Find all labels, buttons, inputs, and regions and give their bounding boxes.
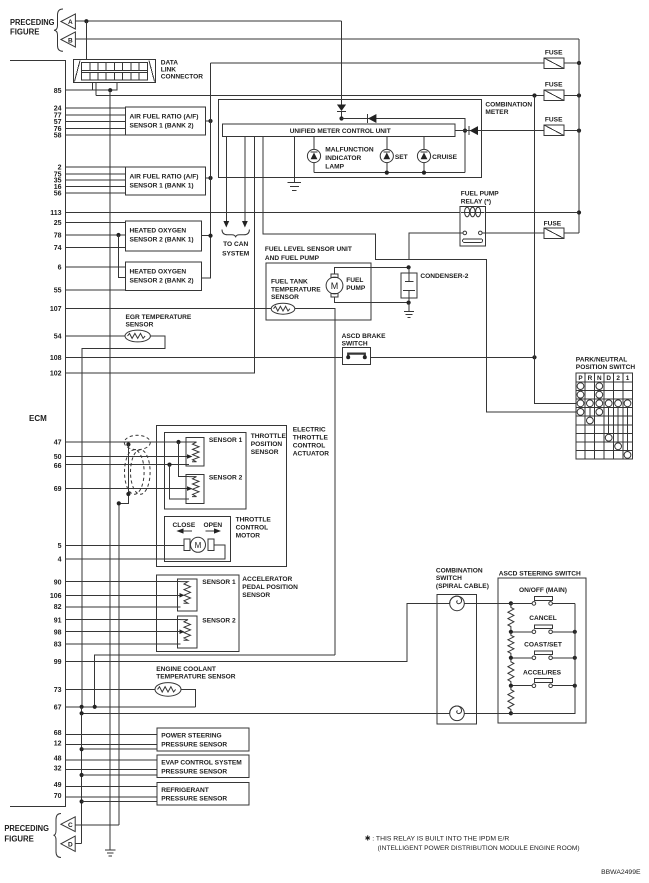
EGR temperature sensor: [125, 330, 150, 342]
wire: AF bank1 right to bus: [205, 177, 210, 179]
wire: DLC pin down to fuse feed line: [95, 82, 97, 95]
combination switch spiral cable box: [437, 595, 477, 724]
air fuel ratio sensor 1 bank 2 box: [125, 107, 205, 135]
wire: pin 99 to spiral cable: [66, 603, 450, 661]
fuel pump motor M: [326, 274, 343, 297]
svg-text:R: R: [588, 375, 593, 382]
svg-text:(SPIRAL CABLE): (SPIRAL CABLE): [436, 583, 489, 590]
node: right bus at cancel: [573, 630, 577, 634]
wire: pin 49: [66, 786, 158, 788]
node: chain at coast/set: [509, 656, 513, 660]
wire: AF bank2 right to bus: [205, 120, 210, 122]
wires: pins 6 55 to HO2S bank2: [66, 267, 126, 290]
wire: pin 106 to APP sensor1 wiper: [66, 594, 181, 596]
TO CAN SYSTEM brace: [222, 230, 249, 238]
P/N switch header labels: [578, 375, 629, 382]
node: bus at relay coil: [577, 210, 581, 214]
ground (combination meter): [288, 136, 302, 190]
svg-text:CANCEL: CANCEL: [529, 615, 556, 622]
wires: pins 25 78 74 to HO2S bank1: [66, 223, 126, 248]
wire: pin 5 to motor: [66, 545, 185, 547]
svg-text:MOTOR: MOTOR: [236, 533, 261, 540]
node: AF bus mid: [208, 176, 212, 180]
FUSE 1: [544, 58, 564, 69]
svg-text:2: 2: [616, 375, 620, 382]
node: shield drain on pin47 wire: [126, 442, 130, 446]
svg-text:47: 47: [54, 440, 62, 447]
svg-text:66: 66: [54, 463, 62, 470]
svg-text:56: 56: [54, 190, 62, 197]
svg-text:FUSE: FUSE: [545, 117, 563, 124]
P/N switch contact circles: [577, 383, 631, 459]
svg-text:PRECEDING: PRECEDING: [4, 824, 49, 833]
svg-text:REFRIGERANT: REFRIGERANT: [161, 787, 209, 794]
svg-text:ECM: ECM: [29, 414, 47, 423]
FUSE 3: [544, 125, 564, 136]
svg-text:COMBINATION: COMBINATION: [485, 101, 532, 108]
svg-text:ACCEL/RES: ACCEL/RES: [523, 669, 562, 676]
engine coolant temperature sensor: [155, 683, 181, 697]
svg-text:FUEL: FUEL: [346, 277, 363, 284]
svg-text:CONTROL: CONTROL: [293, 443, 326, 450]
svg-text:32: 32: [54, 765, 62, 772]
wire: B line to right bus: [75, 38, 579, 40]
wire: ASCD right return bus: [511, 603, 575, 713]
svg-text:ASCD STEERING SWITCH: ASCD STEERING SWITCH: [499, 570, 581, 577]
spiral cable 1: [450, 596, 465, 611]
node: pin85/ground bus junction: [108, 88, 112, 92]
svg-text:ACCELERATOR: ACCELERATOR: [242, 576, 292, 583]
svg-text:PARK/NEUTRAL: PARK/NEUTRAL: [576, 356, 628, 363]
CLOSE OPEN labels: [173, 522, 223, 529]
wire: pin78 branch to HO2S bank2: [119, 235, 126, 278]
wire: pin 102 to combination meter: [66, 136, 255, 373]
svg-text:67: 67: [54, 704, 62, 711]
svg-text:68: 68: [54, 730, 62, 737]
svg-text:TEMPERATURE SENSOR: TEMPERATURE SENSOR: [156, 674, 236, 681]
svg-text:OPEN: OPEN: [204, 522, 223, 529]
node: combination-switch bus tap: [532, 93, 536, 97]
air fuel ratio sensor 1 bank 1 box: [125, 167, 205, 195]
wire: ground tap to EVAP sensor: [82, 774, 157, 776]
pin labels 2 75 35 16 56: [54, 165, 62, 198]
svg-text:69: 69: [54, 486, 62, 493]
node: bus at HO2S bank1: [208, 234, 212, 238]
fuel level sensor unit box: [266, 263, 371, 320]
wire: ground tap to power steering sensor: [82, 748, 157, 750]
wire: pin 90 to APP sensor1: [66, 581, 181, 583]
wire: shield drain: [119, 445, 129, 825]
ECM label: [29, 414, 47, 423]
wire: pin 85 from ECM: [66, 82, 117, 90]
svg-text:CLOSE: CLOSE: [173, 522, 196, 529]
node: spiral line tap: [80, 711, 84, 715]
svg-text:THROTTLE: THROTTLE: [236, 517, 272, 524]
svg-text:55: 55: [54, 287, 62, 294]
wire: unified meter right output to FUSE 3: [455, 130, 544, 132]
svg-text:SENSOR 2: SENSOR 2: [209, 475, 243, 482]
node: bus at fuse3: [577, 129, 581, 133]
svg-text:INDICATOR: INDICATOR: [325, 155, 361, 162]
svg-text:58: 58: [54, 132, 62, 139]
svg-text:EGR TEMPERATURE: EGR TEMPERATURE: [126, 314, 192, 321]
wire: TPS supply branch to sensor 2: [179, 442, 190, 477]
wire: LED cathode bus: [314, 172, 465, 174]
wire: EGR sensor return to ground bus: [82, 336, 165, 707]
wire: ground branch to spiral cable 2: [82, 707, 450, 714]
wire: pin 32: [66, 768, 158, 770]
COAST/SET label: [524, 642, 562, 649]
node: bus at fuse2: [577, 93, 581, 97]
svg-text:5: 5: [58, 543, 62, 550]
svg-text:D: D: [68, 842, 73, 849]
wire: pin 48: [66, 759, 158, 761]
svg-text:1: 1: [626, 375, 630, 382]
diode D3 (pointing left to unified meter): [470, 126, 478, 135]
wire: spiral cable 2 to ASCD resistor chain: [464, 712, 511, 714]
svg-text:49: 49: [54, 782, 62, 789]
TPS sensor 1 potentiometer: [186, 438, 204, 467]
brace (bottom left): [54, 814, 62, 858]
resistor R2 (chain): [508, 632, 514, 657]
svg-text:25: 25: [54, 220, 62, 227]
switch SW2 CANCEL: [511, 625, 575, 634]
brace (top left): [54, 9, 63, 51]
node: CRUISE cathode: [422, 171, 426, 175]
ASCD STEERING SWITCH label: [499, 570, 581, 577]
ground (condenser): [404, 303, 414, 318]
svg-text:SENSOR: SENSOR: [242, 592, 270, 599]
drawing number: [601, 869, 641, 876]
svg-text:108: 108: [50, 355, 62, 362]
svg-text:AND FUEL PUMP: AND FUEL PUMP: [265, 255, 320, 262]
svg-text:ASCD BRAKE: ASCD BRAKE: [342, 333, 387, 340]
wire: pin 70: [66, 796, 158, 798]
throttle position sensor box: [164, 432, 246, 508]
wires: pins 24 77 57 76 58 to AF bank2: [66, 108, 126, 135]
node: junction below diode D1: [339, 116, 343, 120]
svg-text:THROTTLE: THROTTLE: [251, 433, 287, 440]
wire: fuel pump motor bottom to condenser ground: [335, 297, 409, 303]
node: TPS supply branch: [176, 440, 180, 444]
svg-text:DATA: DATA: [161, 60, 179, 67]
node: pin78 branch: [116, 233, 120, 237]
svg-text:48: 48: [54, 755, 62, 762]
node: shield bus top: [117, 501, 121, 505]
node: TPS low branch: [167, 463, 171, 467]
svg-text:FUEL TANK: FUEL TANK: [271, 279, 308, 286]
ON/OFF (MAIN) label: [519, 587, 567, 594]
svg-text:PEDAL POSITION: PEDAL POSITION: [242, 584, 298, 591]
node: condenser top junction: [407, 265, 411, 269]
node: ground bus tap 1: [80, 747, 84, 751]
SENSOR 1 label (TPS): [209, 437, 243, 444]
svg-text:91: 91: [54, 617, 62, 624]
svg-text:54: 54: [54, 333, 62, 340]
svg-text:4: 4: [58, 557, 62, 564]
node: chain at cancel: [509, 630, 513, 634]
wire: A junction down to DLC top: [85, 21, 87, 59]
sensor ground bus (left): [81, 713, 83, 843]
svg-text:SENSOR: SENSOR: [271, 294, 299, 301]
node: pin67 spiral branch: [80, 705, 84, 709]
TO CAN SYSTEM label: [222, 241, 250, 258]
refrigerant pressure sensor box: [157, 783, 249, 805]
svg-text:FIGURE: FIGURE: [10, 28, 40, 37]
power steering pressure sensor box: [157, 728, 249, 751]
PRECEDING FIGURE label (top): [10, 18, 55, 37]
svg-text:AIR FUEL RATIO (A/F): AIR FUEL RATIO (A/F): [130, 114, 199, 121]
svg-text:99: 99: [54, 659, 62, 666]
wire: pin 113 to fuel pump relay coil: [66, 212, 460, 214]
svg-text:107: 107: [50, 306, 62, 313]
svg-text:SENSOR 1 (BANK 1): SENSOR 1 (BANK 1): [130, 182, 194, 189]
wire: combination-switch bus (fuse2 to P/N switch): [535, 96, 576, 404]
MALFUNCTION INDICATOR LAMP label: [325, 147, 374, 171]
svg-text:98: 98: [54, 629, 62, 636]
svg-text:METER: METER: [485, 109, 508, 116]
svg-text:FUSE: FUSE: [544, 221, 562, 228]
resistor R3 (chain): [508, 658, 514, 686]
ACCELERATOR PEDAL POSITION SENSOR label: [242, 576, 298, 599]
LED: malfunction indicator lamp: [307, 136, 320, 172]
node: AF bus top: [208, 119, 212, 123]
svg-text:ACTUATOR: ACTUATOR: [293, 451, 330, 458]
node: chain at accel/res: [509, 684, 513, 688]
throttle control motor box: [164, 517, 230, 562]
PRECEDING FIGURE label (bottom): [4, 824, 49, 844]
svg-text:78: 78: [54, 233, 62, 240]
svg-text:SENSOR 1: SENSOR 1: [209, 437, 243, 444]
wire: pin 98 to APP sensor2 wiper: [66, 631, 181, 633]
THROTTLE CONTROL MOTOR label: [236, 517, 272, 540]
svg-text:UNIFIED METER CONTROL UNIT: UNIFIED METER CONTROL UNIT: [290, 128, 391, 135]
SENSOR 2 label (APP): [202, 617, 236, 624]
wire: chain to SW1: [511, 602, 532, 604]
svg-text:FUSE: FUSE: [545, 82, 563, 89]
svg-text:SYSTEM: SYSTEM: [222, 251, 250, 258]
wire: relay contact left to condenser junction: [409, 233, 463, 260]
svg-text:THROTTLE: THROTTLE: [293, 435, 329, 442]
wire: coolant sensor return to pin 67 line: [181, 689, 196, 706]
svg-text:CRUISE: CRUISE: [432, 154, 458, 161]
wire: pin 66 to TPS sensor1 low: [66, 464, 190, 466]
PARK/NEUTRAL POSITION SWITCH label: [576, 356, 636, 371]
wire: fuel pump ground bus to pin 67 line: [95, 655, 335, 707]
switch SW3 COAST/SET: [511, 651, 575, 660]
wire: pin 91 to APP sensor2: [66, 619, 181, 621]
connector triangle A: [61, 14, 76, 29]
node: pin67 fuel pump branch: [93, 705, 97, 709]
svg-text:SENSOR: SENSOR: [126, 322, 154, 329]
footnote: [365, 835, 580, 852]
node: bus at fuse1: [577, 61, 581, 65]
DLC ground bus (long vertical): [109, 90, 111, 850]
svg-text:M: M: [195, 541, 202, 550]
svg-text:P: P: [578, 375, 583, 382]
wire: pin 107 to fuel tank temperature sensor: [66, 308, 272, 310]
diode D2 (pointing left on top rail): [368, 114, 376, 123]
svg-text:102: 102: [50, 371, 62, 378]
wire: pin 73 to coolant sensor: [66, 688, 156, 690]
wire: pin 69 to TPS sensor2 wiper: [66, 488, 189, 490]
node: junction A/DLC: [84, 19, 88, 23]
relay coil: [461, 207, 485, 217]
node: ground bus tap 3: [80, 799, 84, 803]
FUEL TANK TEMPERATURE SENSOR label: [271, 279, 321, 302]
fuel pump relay box: [460, 207, 486, 246]
shield (dashed) around TPS wires: [125, 450, 151, 495]
node: right bus at accel/res: [573, 684, 577, 688]
DATA LINK CONNECTOR label: [161, 60, 204, 81]
wire: relay contact to FUSE 4: [482, 232, 544, 234]
ECM box outline: [10, 61, 66, 807]
svg-text:ENGINE COOLANT: ENGINE COOLANT: [156, 666, 216, 673]
svg-text:PRESSURE SENSOR: PRESSURE SENSOR: [161, 796, 227, 803]
fuel tank temperature sensor: [271, 303, 295, 314]
svg-text:N: N: [597, 375, 602, 382]
svg-text:MALFUNCTION: MALFUNCTION: [325, 147, 374, 154]
FUSE 4: [544, 228, 564, 239]
wire: FUSE2 to right bus: [564, 95, 579, 97]
open arrow (right): [206, 530, 214, 532]
svg-text:PRESSURE SENSOR: PRESSURE SENSOR: [161, 741, 227, 748]
svg-text:LINK: LINK: [161, 67, 177, 74]
wire: pin 50 to TPS sensor1 wiper: [66, 456, 189, 458]
P/N switch column links: [581, 386, 628, 455]
wire: pin 68: [66, 734, 158, 736]
close arrow (left): [183, 530, 192, 532]
svg-text:FIGURE: FIGURE: [4, 835, 34, 844]
wire: pin 4 to motor (loop): [66, 545, 226, 559]
svg-text:FUEL PUMP: FUEL PUMP: [461, 191, 500, 198]
node: chain top: [509, 601, 513, 605]
svg-text:CONNECTOR: CONNECTOR: [161, 74, 204, 81]
throttle control motor M: [184, 537, 214, 552]
svg-text:LAMP: LAMP: [325, 164, 344, 171]
node: chain bottom: [509, 711, 513, 715]
svg-text:24: 24: [54, 105, 62, 112]
ACCEL/RES label: [523, 669, 562, 676]
wire: pin 67 ground line: [66, 706, 196, 708]
connector triangle C: [61, 817, 75, 832]
SENSOR 1 label (APP): [202, 579, 236, 586]
wire: fuel tank sensor to fuel pump ground bus: [295, 309, 335, 655]
wire: TPS low branch to sensor 2 low: [170, 465, 190, 500]
node: junction on unified meter right rail: [463, 129, 467, 133]
relay contacts: [463, 231, 483, 242]
svg-text:BBWA2499E: BBWA2499E: [601, 869, 641, 876]
heated oxygen sensor 2 bank 2 box: [126, 262, 202, 290]
node: condenser bottom junction: [407, 301, 411, 305]
svg-text:COAST/SET: COAST/SET: [524, 642, 562, 649]
wire: top rail inside meter: [342, 119, 466, 173]
right power bus: [578, 39, 580, 233]
wire: A line to x=341.5: [75, 20, 341, 22]
svg-text:(INTELLIGENT POWER DISTRIBUTIO: (INTELLIGENT POWER DISTRIBUTION MODULE E…: [378, 845, 580, 852]
diode D1 (from A line, pointing down): [341, 21, 343, 104]
FUSE 2: [544, 90, 564, 101]
connector triangle B: [61, 32, 76, 47]
node: SET cathode: [385, 171, 389, 175]
wire: FUSE4 to right bus: [564, 232, 579, 234]
svg-text:POSITION SWITCH: POSITION SWITCH: [576, 364, 636, 371]
shield (dashed) around pin 47 wire: [124, 435, 150, 449]
svg-text:82: 82: [54, 604, 62, 611]
resistor R4 (chain): [508, 686, 514, 714]
heated oxygen sensor 2 bank 1 box: [126, 221, 202, 251]
svg-text:CONTROL: CONTROL: [236, 525, 269, 532]
svg-text:SENSOR 1 (BANK 2): SENSOR 1 (BANK 2): [130, 123, 194, 130]
svg-text:90: 90: [54, 579, 62, 586]
node: ground bus tap 2: [80, 773, 84, 777]
data link connector inner grid: [82, 62, 148, 80]
wire: triangle C to shield bus: [75, 824, 119, 826]
svg-text:POWER STEERING: POWER STEERING: [161, 733, 221, 740]
pin 85 label: [54, 88, 62, 95]
wire: HO2S bank1 right to bus: [202, 235, 211, 237]
ground (bottom): [105, 850, 115, 856]
resistor R1 (chain): [508, 603, 514, 630]
node: right bus at coast/set: [573, 656, 577, 660]
svg-text:70: 70: [54, 793, 62, 800]
APP sensor 1 potentiometer: [178, 579, 198, 611]
svg-text:CONDENSER-2: CONDENSER-2: [420, 273, 468, 280]
switch SW1 ON/OFF: [532, 597, 575, 606]
combination meter box: [219, 99, 482, 177]
svg-text:COMBINATION: COMBINATION: [436, 567, 483, 574]
svg-text:PUMP: PUMP: [346, 285, 366, 292]
wire: brake switch to combination-switch bus: [370, 356, 534, 358]
COMBINATION SWITCH (SPIRAL CABLE) label: [436, 567, 489, 590]
svg-text:83: 83: [54, 642, 62, 649]
wire: AF bus to FUSE 1: [211, 62, 545, 64]
EVAP control system pressure sensor box: [157, 755, 249, 777]
wire: DLC hook to pin 85 line: [92, 82, 94, 90]
svg-text:SWITCH: SWITCH: [436, 575, 462, 582]
svg-text:SENSOR 2: SENSOR 2: [202, 617, 236, 624]
svg-text:106: 106: [50, 593, 62, 600]
unified meter control unit box U1: [222, 124, 455, 136]
svg-text:B: B: [68, 37, 73, 44]
ASCD brake switch: [343, 348, 371, 365]
accelerator pedal position sensor box: [156, 575, 238, 652]
pin labels 24 77 57 76 58: [54, 105, 62, 139]
wire: CAN line 1 from unified meter: [225, 136, 227, 221]
LED: SET: [380, 136, 393, 172]
wire: FUSE1 to right bus: [564, 62, 579, 64]
ASCD steering switch box: [498, 578, 586, 723]
svg-text:12: 12: [54, 741, 62, 748]
electric throttle control actuator box: [157, 426, 287, 567]
svg-text:SENSOR 1: SENSOR 1: [202, 579, 236, 586]
svg-text:EVAP CONTROL SYSTEM: EVAP CONTROL SYSTEM: [161, 760, 242, 767]
svg-text:85: 85: [54, 88, 62, 95]
svg-text:TO CAN: TO CAN: [223, 241, 248, 248]
wire: pin 54 to EGR sensor: [66, 335, 126, 337]
ENGINE COOLANT TEMPERATURE SENSOR label: [156, 666, 236, 681]
APP sensor 2 potentiometer: [178, 616, 198, 648]
wire: pin 12: [66, 744, 158, 746]
node: brake line on bus: [532, 355, 536, 359]
park/neutral position switch grid: [576, 373, 633, 459]
wire: relay coil to right bus: [486, 212, 579, 214]
svg-text:HEATED OXYGEN: HEATED OXYGEN: [130, 268, 187, 275]
svg-text:SET: SET: [395, 154, 408, 161]
svg-text:6: 6: [58, 265, 62, 272]
svg-text:ELECTRIC: ELECTRIC: [293, 427, 326, 434]
svg-text:PRESSURE SENSOR: PRESSURE SENSOR: [161, 768, 227, 775]
